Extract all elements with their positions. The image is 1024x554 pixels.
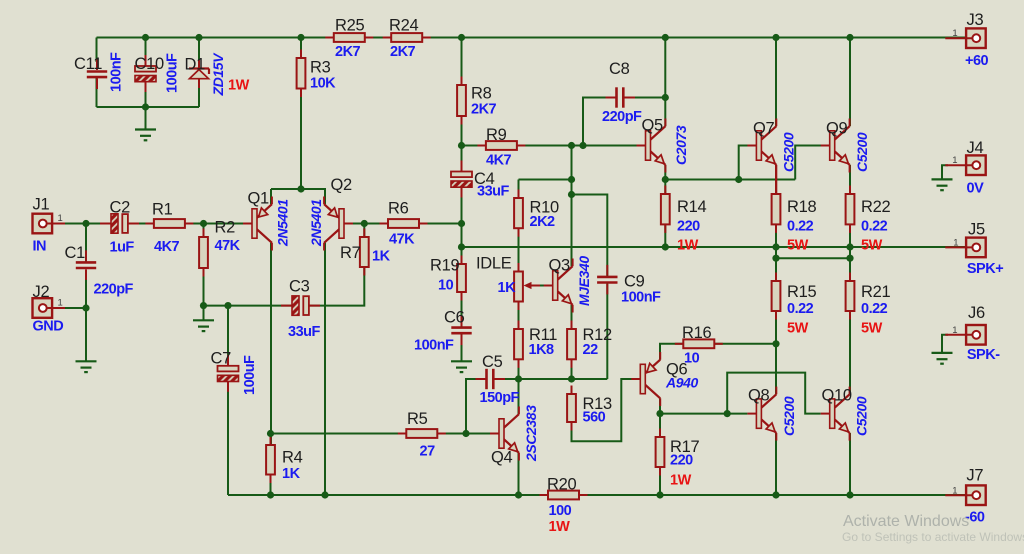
- resistor R9: [477, 141, 525, 150]
- svg-text:5W: 5W: [787, 321, 809, 337]
- svg-text:R9: R9: [486, 126, 507, 144]
- transistor Q10: [821, 387, 850, 441]
- svg-text:C8: C8: [609, 60, 630, 78]
- transistor Q9: [821, 119, 850, 173]
- node Q7 rail: [772, 34, 779, 41]
- resistor R13: [567, 386, 576, 431]
- resistor R25: [325, 33, 373, 42]
- svg-text:J4: J4: [967, 139, 984, 157]
- svg-text:100nF: 100nF: [621, 290, 661, 306]
- svg-text:IN: IN: [33, 239, 47, 255]
- node D1 top: [195, 34, 202, 41]
- wire R9 line: [462, 145, 646, 147]
- wire R2 top: [203, 224, 205, 238]
- connector J6: [945, 325, 985, 345]
- capacitor C8: [606, 87, 636, 107]
- svg-text:10K: 10K: [310, 76, 336, 92]
- node C7 top: [224, 302, 231, 309]
- wire Q10 emitter down: [849, 433, 851, 495]
- node R6 C4: [458, 220, 465, 227]
- svg-text:2K2: 2K2: [530, 214, 556, 230]
- svg-text:Q5: Q5: [642, 117, 664, 135]
- wire R12 bottom: [571, 359, 573, 379]
- wire R19 column: [461, 224, 463, 265]
- transistor Q3: [544, 259, 573, 313]
- transistor Q2: [324, 197, 353, 251]
- svg-text:R6: R6: [388, 200, 409, 218]
- svg-text:1K: 1K: [498, 280, 517, 296]
- resistor R22: [846, 186, 855, 233]
- svg-text:2K7: 2K7: [390, 44, 416, 60]
- svg-text:J3: J3: [967, 11, 984, 29]
- node R18 out: [772, 243, 779, 250]
- ground zobel ground: [451, 361, 472, 372]
- node R4 rail: [267, 491, 274, 498]
- connector J4: [945, 155, 985, 175]
- wire Q3 collector to Q5 base: [571, 146, 573, 267]
- svg-text:100: 100: [549, 503, 572, 519]
- wire input line C2 to Q1: [130, 223, 253, 225]
- svg-text:C11: C11: [74, 55, 102, 73]
- svg-text:Q9: Q9: [826, 120, 848, 138]
- resistor R1: [145, 219, 193, 228]
- svg-text:2N5401: 2N5401: [308, 199, 324, 247]
- ground supply ground: [135, 130, 156, 141]
- svg-text:1W: 1W: [549, 519, 571, 535]
- svg-text:220: 220: [677, 219, 700, 235]
- svg-text:Q1: Q1: [248, 190, 270, 208]
- wire R4 bottom: [270, 475, 272, 496]
- wire input line J1 to C2: [47, 223, 110, 225]
- wire Q4 collector up: [518, 379, 520, 414]
- resistor R14: [661, 186, 670, 233]
- wire R11 bottom: [518, 359, 520, 379]
- wire ground bus: [204, 305, 293, 307]
- svg-text:R19: R19: [430, 257, 459, 275]
- capacitor C1: [76, 250, 96, 280]
- capacitor C7: [218, 355, 239, 392]
- svg-text:C5200: C5200: [781, 396, 797, 436]
- svg-text:C9: C9: [624, 273, 645, 291]
- svg-text:5W: 5W: [861, 238, 883, 254]
- wire Q6 collector to R17: [659, 398, 661, 437]
- node Q9 rail: [846, 34, 853, 41]
- svg-text:Q4: Q4: [491, 449, 513, 467]
- svg-text:IDLE: IDLE: [476, 255, 512, 273]
- wire J2 stub: [47, 307, 86, 309]
- svg-text:J2: J2: [33, 283, 50, 301]
- wire D1 top drop: [198, 38, 200, 63]
- resistor R6: [380, 219, 428, 228]
- svg-text:R16: R16: [682, 324, 711, 342]
- wire Q9 emitter to R22: [849, 165, 851, 194]
- transistor Q4: [490, 407, 519, 461]
- node R10 link: [568, 176, 575, 183]
- svg-text:220pF: 220pF: [602, 109, 642, 125]
- node out R19: [458, 243, 465, 250]
- resistor R15: [772, 273, 781, 320]
- wire R17 bottom: [659, 467, 661, 495]
- svg-text:R25: R25: [335, 17, 364, 35]
- svg-text:R8: R8: [471, 85, 492, 103]
- node C5 R5: [462, 430, 469, 437]
- svg-text:R24: R24: [389, 17, 418, 35]
- svg-text:R4: R4: [282, 449, 303, 467]
- diode D1: [189, 60, 209, 88]
- node J2 C1: [82, 304, 89, 311]
- svg-text:R2: R2: [215, 219, 236, 237]
- wire R7 top: [363, 224, 365, 238]
- wire C5 left leg: [466, 379, 485, 434]
- svg-text:ZD15V: ZD15V: [210, 52, 226, 97]
- node R22 out: [846, 243, 853, 250]
- node R2 gnd: [200, 302, 207, 309]
- wire R18 bottom: [775, 224, 777, 258]
- svg-text:0.22: 0.22: [787, 219, 814, 235]
- potentiometer RV1 IDLE: [514, 263, 553, 310]
- svg-text:1: 1: [952, 325, 957, 336]
- connector J5: [945, 238, 985, 258]
- resistor R16: [675, 339, 723, 348]
- node J1 C1: [82, 220, 89, 227]
- wire -60 bottom rail: [228, 494, 971, 496]
- svg-text:R3: R3: [310, 59, 331, 77]
- svg-text:2K7: 2K7: [335, 44, 361, 60]
- resistor R20: [540, 491, 588, 500]
- node Q2C rail: [321, 491, 328, 498]
- resistor R12: [567, 321, 576, 368]
- svg-text:1: 1: [58, 213, 63, 224]
- svg-text:1K8: 1K8: [529, 342, 555, 358]
- svg-text:C7: C7: [211, 350, 232, 368]
- svg-text:10: 10: [438, 278, 454, 294]
- connector J1: [33, 214, 66, 234]
- capacitor C3: [281, 296, 320, 315]
- wire C9 bottom: [606, 283, 608, 379]
- capacitor C4: [451, 161, 472, 198]
- svg-text:R5: R5: [407, 410, 428, 428]
- svg-text:SPK-: SPK-: [967, 347, 1000, 363]
- resistor R5: [398, 429, 446, 438]
- resistor R10: [514, 190, 523, 237]
- svg-text:R7: R7: [340, 244, 361, 262]
- svg-text:R1: R1: [152, 201, 173, 219]
- node C9 link: [568, 191, 575, 198]
- svg-text:J1: J1: [33, 196, 50, 214]
- svg-text:C1: C1: [65, 244, 86, 262]
- resistor R24: [383, 33, 431, 42]
- resistor R19: [457, 256, 466, 301]
- wire C10 top drop: [145, 38, 147, 67]
- wire D1 bottom: [198, 79, 200, 108]
- wire Q9 base drop: [795, 146, 830, 180]
- transistor Q1: [243, 197, 272, 251]
- svg-text:5W: 5W: [861, 321, 883, 337]
- svg-text:R20: R20: [547, 476, 576, 494]
- resistor R17: [656, 429, 665, 476]
- svg-text:1K: 1K: [282, 466, 301, 482]
- svg-text:R21: R21: [861, 283, 890, 301]
- wire output rail: [462, 246, 971, 248]
- wire R21 bottom to Q10 collector: [849, 311, 851, 394]
- svg-text:1: 1: [953, 238, 958, 249]
- wire Q8 base line: [660, 413, 747, 415]
- transistor Q5: [637, 119, 666, 173]
- wire R19 to C6: [461, 292, 463, 327]
- node diff tail: [297, 185, 304, 192]
- svg-text:150pF: 150pF: [480, 390, 520, 406]
- capacitor C10: [135, 55, 156, 92]
- wire R6 line: [344, 223, 462, 225]
- resistor R7: [360, 229, 369, 276]
- node Q8 base: [724, 410, 731, 417]
- svg-text:D1: D1: [185, 56, 206, 74]
- node Q6C R17: [656, 410, 663, 417]
- wire J4 ground stub: [942, 165, 948, 179]
- node Q10E rail: [846, 491, 853, 498]
- svg-text:C3: C3: [289, 278, 310, 296]
- ground J4 ground: [932, 179, 953, 190]
- svg-text:100uF: 100uF: [242, 355, 258, 395]
- svg-text:560: 560: [583, 410, 606, 426]
- wire Q1 emitter up: [270, 189, 272, 204]
- resistor R21: [846, 273, 855, 320]
- wire Q3 emitter to R12: [571, 305, 573, 329]
- capacitor C11: [87, 60, 107, 90]
- wire J6 ground stub: [942, 335, 948, 353]
- wire Q6 emitter to R16: [660, 344, 776, 360]
- wire Q9 collector: [849, 38, 851, 127]
- svg-text:Q7: Q7: [753, 120, 775, 138]
- node Q3C base: [568, 142, 575, 149]
- node Q4E rail: [515, 491, 522, 498]
- node R4 R5: [267, 430, 274, 437]
- svg-text:1: 1: [952, 28, 957, 39]
- svg-text:R15: R15: [787, 283, 816, 301]
- svg-text:4K7: 4K7: [486, 153, 512, 169]
- node R17 rail: [656, 491, 663, 498]
- node driver bases: [735, 176, 742, 183]
- connector J7: [945, 485, 985, 505]
- wire R10 to pot: [518, 228, 520, 271]
- svg-text:100nF: 100nF: [109, 52, 125, 92]
- wire C1 bottom to ground: [85, 270, 87, 361]
- wire C3 right to R7: [308, 267, 364, 306]
- wire Q8 emitter down: [775, 433, 777, 495]
- wire Q7 collector: [775, 38, 777, 127]
- wire output second line: [776, 257, 850, 259]
- svg-text:A940: A940: [665, 375, 698, 391]
- svg-text:Q2: Q2: [331, 176, 353, 194]
- wire C11 top drop: [96, 38, 98, 63]
- wire C9 top link: [572, 195, 608, 277]
- wire C7 top: [227, 306, 229, 366]
- node C8 Q5C: [662, 94, 669, 101]
- svg-text:R22: R22: [861, 198, 890, 216]
- wire +60 top rail: [97, 37, 971, 39]
- wire R22 bottom: [849, 224, 851, 258]
- svg-text:Go to Settings to activate Win: Go to Settings to activate Windows.: [842, 530, 1024, 544]
- svg-text:C10: C10: [135, 55, 164, 73]
- wire C4 bottom to node: [461, 189, 463, 248]
- capacitor C5: [476, 369, 506, 389]
- resistor R18: [772, 186, 781, 233]
- connector J2: [33, 298, 66, 318]
- ground input ground: [76, 361, 97, 372]
- svg-text:1K: 1K: [372, 249, 391, 265]
- wire R15 top: [775, 258, 777, 281]
- svg-text:0V: 0V: [967, 180, 985, 196]
- svg-text:C5: C5: [482, 353, 503, 371]
- svg-text:100uF: 100uF: [165, 53, 181, 93]
- svg-text:1: 1: [952, 155, 957, 166]
- svg-text:J5: J5: [968, 221, 985, 239]
- wire node A line: [496, 378, 608, 380]
- wire diff emitters: [271, 189, 325, 204]
- wire R21 top: [849, 258, 851, 281]
- resistor R11: [514, 321, 523, 368]
- ground J6 ground: [932, 353, 953, 364]
- transistor Q6: [631, 352, 660, 406]
- svg-text:C2073: C2073: [673, 125, 689, 165]
- svg-text:1: 1: [952, 485, 957, 496]
- svg-text:Q8: Q8: [748, 387, 770, 405]
- wire pot to R11: [518, 302, 520, 330]
- svg-text:47K: 47K: [215, 238, 241, 254]
- node C10 bottom: [142, 103, 149, 110]
- svg-text:33uF: 33uF: [477, 184, 509, 200]
- svg-text:C2: C2: [110, 199, 131, 217]
- node R15 link: [772, 255, 779, 262]
- capacitor C2: [100, 214, 139, 233]
- svg-text:100nF: 100nF: [414, 338, 454, 354]
- svg-text:+60: +60: [965, 53, 989, 69]
- wire R5 line: [271, 433, 491, 435]
- svg-text:J6: J6: [968, 304, 985, 322]
- svg-text:J7: J7: [966, 467, 983, 485]
- svg-text:SPK+: SPK+: [967, 261, 1003, 277]
- wire Q7 base drop: [739, 146, 757, 180]
- svg-text:22: 22: [583, 342, 599, 358]
- node R8 R9: [458, 142, 465, 149]
- svg-text:GND: GND: [33, 319, 64, 335]
- wire Q4 emitter down: [518, 453, 520, 495]
- wire C11 bottom: [96, 77, 98, 107]
- wire decoupling bottom: [97, 106, 200, 108]
- wire driver base line: [665, 179, 795, 181]
- ground feedback ground: [193, 320, 214, 331]
- wire Q8-Q10 base jumper: [727, 373, 821, 414]
- svg-text:0.22: 0.22: [861, 301, 888, 317]
- svg-text:C5200: C5200: [854, 396, 870, 436]
- transistor Q8: [747, 387, 776, 441]
- svg-text:Activate Windows: Activate Windows: [843, 513, 969, 530]
- wire C8 left drop: [583, 98, 617, 146]
- node R21 link: [846, 255, 853, 262]
- wire R15 bottom to Q8 collector: [775, 311, 777, 394]
- svg-text:47K: 47K: [389, 232, 415, 248]
- wire C10 bottom to ground: [145, 81, 147, 130]
- wire R8 drop: [461, 38, 463, 172]
- svg-text:220pF: 220pF: [94, 282, 134, 298]
- node Q8E rail: [772, 491, 779, 498]
- node R11 A: [515, 375, 522, 382]
- svg-text:4K7: 4K7: [154, 239, 180, 255]
- svg-text:C5200: C5200: [854, 132, 870, 172]
- svg-text:0.22: 0.22: [861, 219, 888, 235]
- wire Q5 emitter node: [664, 165, 666, 194]
- svg-text:R18: R18: [787, 198, 816, 216]
- wire Q7 emitter lead: [775, 165, 777, 194]
- resistor R4: [266, 437, 275, 484]
- capacitor C9: [597, 265, 617, 295]
- wire C6 to ground: [461, 334, 463, 361]
- node C8 base: [579, 142, 586, 149]
- node Q5 rail: [662, 34, 669, 41]
- resistor R3: [297, 50, 306, 98]
- svg-text:C5200: C5200: [781, 132, 797, 172]
- wire R10 top link: [519, 179, 572, 181]
- wire R10 top drop: [518, 180, 520, 199]
- svg-text:5W: 5W: [787, 238, 809, 254]
- wire R3 branch: [300, 38, 302, 190]
- wire R2 bottom to ground: [203, 268, 205, 320]
- node R1 R2: [200, 220, 207, 227]
- resistor R2: [199, 229, 208, 277]
- wire Q1 collector down: [270, 243, 272, 445]
- svg-text:220: 220: [670, 453, 693, 469]
- svg-text:MJE340: MJE340: [576, 256, 592, 306]
- wire Q2 collector down: [324, 243, 326, 495]
- node R16 Q8C: [772, 340, 779, 347]
- wire Q5 collector: [664, 38, 666, 127]
- svg-text:Q10: Q10: [822, 387, 852, 405]
- node R8 top: [458, 34, 465, 41]
- transistor Q7: [747, 119, 776, 195]
- node R12 A: [568, 375, 575, 382]
- svg-text:27: 27: [420, 444, 436, 460]
- svg-text:C6: C6: [444, 309, 465, 327]
- svg-text:1uF: 1uF: [110, 240, 135, 256]
- svg-text:1W: 1W: [228, 78, 250, 94]
- wire C7 bottom to rail: [227, 383, 229, 496]
- svg-text:R14: R14: [677, 198, 706, 216]
- connector J3: [945, 28, 985, 48]
- svg-text:0.22: 0.22: [787, 301, 814, 317]
- node R3 top: [297, 34, 304, 41]
- svg-text:2K7: 2K7: [471, 102, 497, 118]
- svg-text:33uF: 33uF: [288, 324, 320, 340]
- svg-text:2SC2383: 2SC2383: [523, 405, 539, 462]
- resistor R8: [457, 77, 466, 125]
- wire C1 top: [85, 224, 87, 263]
- node R14 out: [662, 243, 669, 250]
- node Q5E R14: [662, 176, 669, 183]
- svg-text:1W: 1W: [670, 473, 692, 489]
- node C10 top: [142, 34, 149, 41]
- svg-text:2N5401: 2N5401: [275, 199, 291, 247]
- svg-text:1W: 1W: [677, 238, 699, 254]
- capacitor C6: [451, 316, 471, 346]
- svg-text:Q3: Q3: [549, 257, 571, 275]
- node Q2 base R7: [361, 220, 368, 227]
- wire R14 bottom: [664, 224, 666, 247]
- wire C8 right: [626, 97, 666, 99]
- svg-text:1: 1: [58, 298, 63, 309]
- wire R13 bottom to Q6 base: [572, 379, 632, 441]
